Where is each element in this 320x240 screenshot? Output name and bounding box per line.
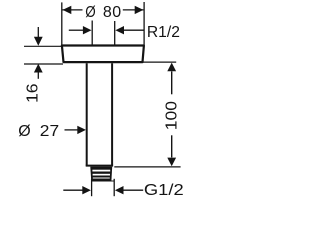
thread R1/2 right extension bar (114, 21, 116, 45)
thread G1/2 body (90, 167, 112, 181)
svg-text:Ø: Ø (85, 4, 95, 21)
dimension D27 arrowhead (77, 126, 86, 134)
dimension G1/2 right extension bar (113, 179, 115, 196)
dimension R1/2 right shaft (124, 29, 144, 31)
svg-text:100: 100 (164, 101, 181, 130)
dimension D80 right arrowhead (135, 6, 144, 14)
dimension 100 bottom arrowhead (167, 158, 176, 167)
dimension D27 arrow shaft (65, 129, 78, 131)
dimension 100 upper shaft (171, 71, 173, 94)
svg-text:16: 16 (24, 83, 41, 103)
svg-text:27: 27 (40, 123, 59, 140)
dimension G1/2 left shaft (63, 189, 82, 191)
svg-text:R1/2: R1/2 (147, 24, 180, 41)
dimension G1/2 left extension bar (91, 179, 93, 196)
dimension 16 lower shaft (37, 72, 39, 79)
dimension D80 right extension line (143, 2, 145, 45)
pipe end extension line (114, 166, 180, 168)
svg-text:8: 8 (103, 4, 112, 21)
dimension D80 left arrowhead (63, 6, 72, 14)
dimension 16 upper shaft (37, 27, 39, 37)
flange bottom extension line left (24, 63, 63, 65)
thread white stripe 2 (93, 174, 110, 176)
flange bottom extension line right (143, 61, 176, 63)
thread white stripe 1 (92, 170, 110, 172)
svg-text:Ø: Ø (18, 123, 30, 140)
dimension G1/2 bridge line (92, 180, 115, 182)
svg-text:0: 0 (112, 4, 121, 21)
dimension G1/2 right arrowhead (115, 186, 124, 194)
svg-text:G1/2: G1/2 (144, 182, 184, 199)
thread white stripe 3 (93, 178, 110, 179)
flange (escutcheon) outline (62, 46, 144, 63)
dimension 100 top arrowhead (167, 63, 176, 72)
dimension 100 lower shaft (171, 135, 173, 157)
dimension D80 left extension line (61, 2, 63, 44)
dimension 16 down arrowhead (34, 37, 43, 46)
pipe bottom shoulder (86, 165, 113, 167)
dimension G1/2 right shaft (124, 189, 144, 191)
dimension R1/2 right arrowhead (115, 26, 124, 34)
dimension R1/2 left shaft (69, 29, 83, 31)
dimension D80 line left segment (63, 9, 83, 11)
dimension R1/2 left arrowhead (83, 26, 92, 34)
pipe left edge (86, 63, 88, 165)
pipe right edge (111, 63, 113, 165)
ceiling line left (24, 45, 61, 47)
dimension D80 line right segment (123, 9, 144, 11)
dimension 16 up arrowhead (34, 64, 43, 73)
dimension G1/2 left arrowhead (82, 186, 91, 194)
thread R1/2 left extension bar (91, 21, 93, 45)
